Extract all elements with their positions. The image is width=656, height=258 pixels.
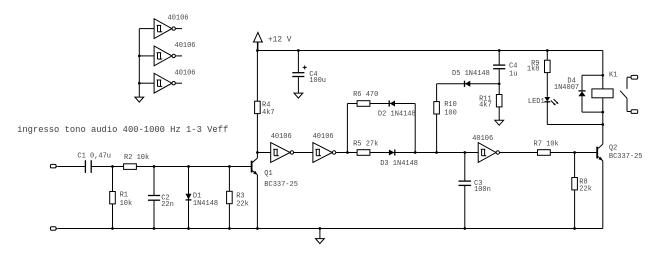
svg-text:BC337-25: BC337-25 — [609, 153, 643, 161]
svg-text:1N4148: 1N4148 — [193, 200, 218, 208]
node rail-R3 — [228, 227, 231, 230]
svg-text:R1: R1 — [120, 192, 128, 200]
label C3 100n — [474, 180, 491, 194]
wire input to C1 — [58, 166, 86, 168]
svg-text:40106: 40106 — [175, 69, 196, 77]
ground (C4) — [294, 93, 303, 98]
capacitor C2 — [148, 196, 160, 201]
op-amp inverter U1B 40106 (unused) — [154, 46, 182, 66]
wire feedback up — [347, 104, 415, 153]
wire C3 branch — [464, 153, 466, 229]
svg-text:R10: R10 — [444, 101, 457, 109]
node rail-R9 — [546, 49, 549, 52]
wire rail corner to relay — [602, 51, 604, 125]
svg-text:1u: 1u — [509, 70, 517, 78]
label R4 4k7 — [262, 101, 275, 117]
op-amp inverter U1F 40106 — [478, 143, 499, 163]
svg-text:BC337-25: BC337-25 — [264, 181, 298, 189]
ground (main rail) — [316, 239, 325, 244]
node D2-D3 join — [414, 151, 417, 154]
wire +12V rail — [257, 50, 602, 52]
svg-text:R7 10k: R7 10k — [534, 141, 559, 149]
wire rail to C4 — [297, 51, 299, 73]
svg-text:1N4007: 1N4007 — [554, 84, 579, 92]
transistor Q2 BC337-25 — [597, 125, 603, 229]
power +12V symbol — [253, 32, 263, 50]
svg-text:R4: R4 — [262, 101, 270, 109]
relay contact K1 — [620, 75, 638, 113]
label R6 470 — [353, 91, 378, 99]
op-amp inverter U1D 40106 — [271, 143, 294, 163]
node Q1 collector — [256, 151, 259, 154]
label C4 100u — [309, 71, 326, 85]
terminal input signal — [50, 164, 58, 168]
op-amp inverter U1C 40106 (unused) — [154, 73, 182, 93]
resistor R6 — [357, 101, 370, 107]
node rail-C4a — [297, 49, 300, 52]
diode D4 1N4007 — [578, 91, 585, 96]
label R3 22k — [236, 193, 249, 209]
node Q1 emitter-rail — [256, 227, 259, 230]
node junction bus-gate2 — [138, 55, 141, 58]
wire +12V to Q1 collector node — [256, 42, 258, 153]
svg-text:D5 1N4148: D5 1N4148 — [452, 70, 490, 78]
wire ground rail — [58, 228, 603, 230]
svg-text:40106: 40106 — [313, 133, 334, 141]
wire C1 to Q1 base — [91, 166, 251, 168]
node C3 tap — [463, 151, 466, 154]
svg-text:1k8: 1k8 — [527, 66, 540, 74]
node rail-C3 — [463, 227, 466, 230]
resistor R10 — [434, 102, 440, 114]
node C1-R1-R2 — [111, 165, 114, 168]
svg-text:Q2: Q2 — [609, 144, 617, 152]
text title ingresso — [17, 125, 228, 135]
diode D3 1N4148 — [389, 149, 395, 155]
node rail-gnd — [319, 227, 322, 230]
resistor R5 — [357, 150, 370, 156]
label K1 — [609, 71, 617, 79]
wire gateB out — [336, 152, 478, 154]
svg-text:ingresso tono audio 400-1000 H: ingresso tono audio 400-1000 Hz 1-3 Veff — [17, 125, 228, 135]
label C2 22n — [161, 194, 174, 208]
svg-text:40106: 40106 — [472, 135, 493, 143]
capacitor C4 1u — [493, 65, 505, 69]
wire D4 loop — [582, 75, 603, 112]
label U1A 40106 — [168, 15, 189, 23]
label R11 4k7 — [479, 96, 492, 110]
diode D1 1N4148 — [186, 167, 192, 229]
ground (R11) — [495, 120, 504, 125]
label D5 1N4148 — [452, 70, 490, 78]
node relay bottom — [601, 111, 604, 114]
svg-text:40106: 40106 — [168, 15, 189, 23]
node osc out — [346, 151, 349, 154]
node LED-collector join — [601, 123, 604, 126]
wire R10 branch — [437, 84, 500, 153]
node D5-C4-R11 — [498, 82, 501, 85]
resistor R7 — [538, 150, 551, 156]
node R2-C2 — [153, 165, 156, 168]
node R10 tap — [435, 151, 438, 154]
wire C2 branch — [153, 167, 155, 229]
svg-text:22k: 22k — [236, 200, 249, 208]
resistor R9 — [545, 60, 551, 72]
resistor R8 — [572, 153, 578, 229]
transistor Q1 BC337-25 — [252, 153, 258, 229]
label U1B 40106 — [175, 42, 196, 50]
wire gateA to gateB — [294, 152, 313, 154]
label R9 1k8 — [527, 60, 540, 74]
label R10 100 — [444, 101, 457, 118]
svg-text:LED1: LED1 — [528, 98, 545, 106]
label R8 22k — [579, 178, 592, 193]
node rail-C2 — [153, 227, 156, 230]
label +12 V — [268, 37, 292, 45]
label Q2 — [609, 144, 617, 152]
label C1 0,47u — [77, 153, 111, 161]
svg-text:R6 470: R6 470 — [353, 91, 378, 99]
diode D5 1N4148 — [465, 81, 471, 87]
label Q2 BC337-25 — [609, 153, 643, 161]
capacitor C1 — [85, 160, 91, 173]
label U1D 40106 — [271, 133, 292, 141]
svg-text:40106: 40106 — [271, 133, 292, 141]
svg-text:22k: 22k — [579, 186, 592, 194]
resistor R11 — [496, 84, 502, 121]
node D1-R3 — [228, 165, 231, 168]
label D2 1N4148 — [378, 111, 416, 119]
label LED1 — [528, 98, 545, 106]
wire Q1 to gate A — [257, 152, 270, 154]
label R5 27k — [353, 140, 378, 148]
LED LED1 — [544, 97, 558, 105]
label D3 1N4148 — [380, 160, 418, 168]
label R1 10k — [120, 192, 133, 208]
wire input bus of unused gates — [139, 29, 154, 98]
wire R9 branch — [546, 51, 548, 97]
diode D2 1N4148 — [389, 100, 395, 106]
relay coil K1 — [592, 89, 613, 98]
op-amp inverter U1A 40106 (unused) — [154, 19, 182, 39]
node relay top — [601, 74, 604, 77]
svg-text:D3 1N4148: D3 1N4148 — [380, 160, 418, 168]
node rail-R1 — [111, 227, 114, 230]
node R7-R8-Q2base — [573, 151, 576, 154]
svg-text:100u: 100u — [309, 77, 326, 85]
label Q1 BC337-25 — [264, 181, 298, 189]
node rail-C4b — [498, 49, 501, 52]
svg-text:R5 27k: R5 27k — [353, 140, 378, 148]
wire gnd stem — [319, 229, 321, 239]
terminal input ground — [50, 227, 58, 231]
capacitor C4 100u — [292, 65, 306, 93]
wire gateF to R7 — [500, 152, 597, 154]
label D1 1N4148 — [193, 193, 218, 208]
label D4 1N4007 — [554, 78, 579, 92]
label R7 10k — [534, 141, 559, 149]
svg-text:4k7: 4k7 — [479, 102, 492, 110]
label R2 10k — [124, 154, 149, 162]
resistor R3 — [227, 167, 233, 229]
label Q1 — [264, 170, 272, 178]
svg-text:100: 100 — [444, 109, 457, 117]
wire C4b branch — [498, 51, 500, 84]
node junction bus-gate3 — [138, 82, 141, 85]
svg-text:D2 1N4148: D2 1N4148 — [378, 111, 416, 119]
svg-text:Q1: Q1 — [264, 170, 272, 178]
ground (unused-gate bus) — [135, 97, 144, 102]
node rail-R8 — [573, 227, 576, 230]
svg-text:R2 10k: R2 10k — [124, 154, 149, 162]
resistor R1 — [110, 167, 116, 229]
node rail-D1 — [187, 227, 190, 230]
svg-text:10k: 10k — [120, 200, 133, 208]
svg-text:22n: 22n — [161, 201, 174, 209]
svg-text:4k7: 4k7 — [262, 109, 275, 117]
node rail-R4 — [256, 49, 259, 52]
label U1C 40106 — [175, 69, 196, 77]
op-amp inverter U1E 40106 — [313, 143, 336, 163]
resistor R2 — [124, 164, 137, 170]
label C4 1u — [509, 63, 517, 79]
capacitor C3 — [459, 181, 472, 185]
wire LED to Q2 collector — [547, 102, 603, 125]
svg-text:C1 0,47u: C1 0,47u — [77, 153, 111, 161]
label U1E 40106 — [313, 133, 334, 141]
svg-text:K1: K1 — [609, 71, 617, 79]
label U1F 40106 — [472, 135, 493, 143]
resistor R4 — [255, 101, 261, 113]
svg-text:40106: 40106 — [175, 42, 196, 50]
node C2-D1 — [187, 165, 190, 168]
svg-text:+12 V: +12 V — [268, 37, 292, 45]
svg-text:100n: 100n — [474, 186, 491, 194]
